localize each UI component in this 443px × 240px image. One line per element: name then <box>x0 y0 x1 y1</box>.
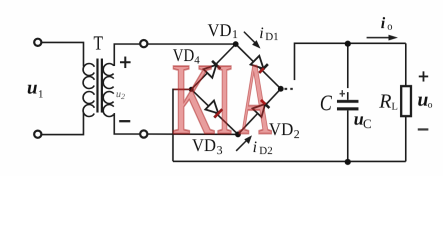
wire primary top <box>41 42 83 66</box>
diode VD3 <box>205 101 222 118</box>
transformer primary winding <box>83 64 95 117</box>
node left vertex <box>189 87 194 92</box>
svg-text:L: L <box>391 102 397 113</box>
label secondary minus <box>119 120 130 122</box>
resistor RL box <box>401 86 411 116</box>
svg-text:i: i <box>259 25 263 42</box>
node bottom vertex <box>235 131 241 137</box>
node right vertex <box>278 86 284 92</box>
wire bottom rail to bridge <box>147 133 238 135</box>
svg-text:u: u <box>27 78 38 99</box>
watermark KIA <box>171 43 272 157</box>
svg-text:VD: VD <box>269 119 293 139</box>
svg-text:T: T <box>93 33 103 55</box>
diode VD4 <box>203 61 220 78</box>
wire capacitor branch bottom <box>347 110 349 161</box>
label secondary plus <box>120 57 131 69</box>
svg-text:1: 1 <box>38 89 44 101</box>
svg-text:o: o <box>387 22 392 33</box>
svg-text:D1: D1 <box>265 31 278 43</box>
wire right side vertical bottom <box>405 116 407 161</box>
wire right vertex stub dashes <box>284 88 292 90</box>
node capacitor bottom junction <box>345 159 351 165</box>
red mark VD1 cathode <box>259 68 264 73</box>
transformer secondary winding <box>103 64 115 117</box>
terminal input top <box>34 39 41 46</box>
wire secondary top <box>114 44 140 66</box>
wire output bottom rail <box>173 160 406 162</box>
bridge edge top-right <box>236 44 281 89</box>
arrow iD1 <box>244 32 261 49</box>
wire right side vertical top <box>405 43 407 86</box>
transformer core <box>97 59 101 113</box>
node top vertex <box>233 41 239 47</box>
wire right vertex riser <box>294 43 405 80</box>
wire capacitor branch top <box>347 43 349 88</box>
svg-text:2: 2 <box>294 127 300 141</box>
svg-text:1: 1 <box>232 27 238 41</box>
label output plus <box>419 71 428 81</box>
svg-text:VD: VD <box>207 20 231 40</box>
red mark VD3 cathode <box>214 109 222 117</box>
arrow iD2 <box>236 135 252 151</box>
red mark VD2 cathode <box>261 100 266 104</box>
terminal input bottom <box>34 131 41 138</box>
bridge edge top-left <box>191 44 235 89</box>
label output minus <box>418 128 429 130</box>
wire capacitor branch dash <box>347 92 349 100</box>
terminal secondary bottom <box>140 130 147 137</box>
svg-text:I: I <box>216 43 233 157</box>
wire primary bottom <box>41 113 83 135</box>
svg-text:C: C <box>320 90 332 115</box>
svg-text:C: C <box>363 116 372 131</box>
wire secondary bottom <box>114 113 140 134</box>
terminal secondary top <box>140 40 147 47</box>
red mark left vertex wire <box>174 88 190 90</box>
capacitor C plates <box>337 100 359 111</box>
wire left vertex to bottom rail <box>173 89 191 161</box>
arrow io <box>367 35 398 41</box>
diode VD2 <box>252 100 269 117</box>
svg-text:A: A <box>238 43 272 157</box>
svg-text:i: i <box>381 15 386 32</box>
bridge edge bottom-right <box>238 89 281 135</box>
svg-text:R: R <box>378 91 391 113</box>
node capacitor top junction <box>345 41 351 47</box>
svg-text:K: K <box>171 43 215 157</box>
bridge edge bottom-left <box>191 89 238 134</box>
wire top rail to bridge <box>147 43 235 45</box>
svg-text:o: o <box>428 101 433 111</box>
diode VD1 <box>251 56 268 73</box>
label capacitor plus <box>340 90 345 97</box>
